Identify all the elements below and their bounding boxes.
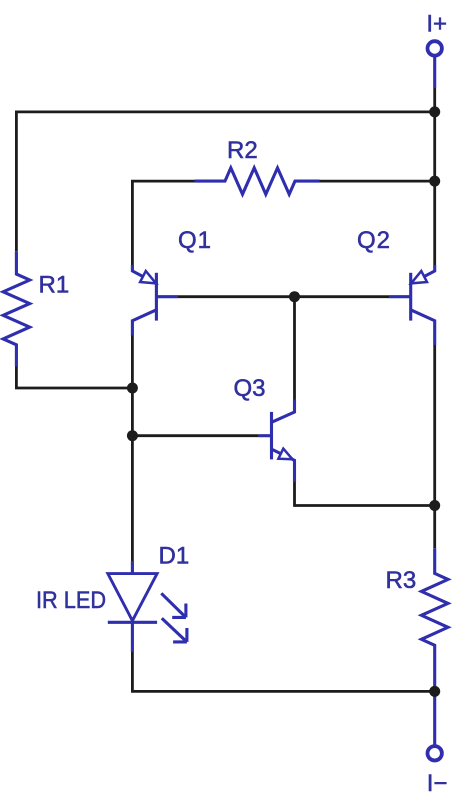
svg-text:R3: R3: [386, 567, 417, 594]
terminal I-: [428, 746, 442, 760]
node junction top-right: [429, 106, 440, 117]
wire left rail upper: [15, 111, 18, 252]
node junction bases: [289, 291, 300, 302]
svg-text:R2: R2: [227, 137, 258, 164]
svg-text:D1: D1: [159, 543, 190, 570]
node junction R2-right: [429, 176, 440, 187]
node junction R1-bottom: [127, 383, 138, 394]
svg-text:R1: R1: [39, 272, 70, 299]
transistor Q2: [389, 265, 435, 345]
resistor R3: [421, 548, 448, 746]
svg-text:Q3: Q3: [234, 375, 266, 402]
wire right rail middle: [433, 345, 436, 548]
wire Q3 emitter to right rail: [295, 482, 435, 506]
transistor Q1: [132, 265, 178, 336]
wire top horizontal: [16, 111, 434, 114]
svg-text:I+: I+: [426, 11, 447, 38]
D1 light arrow 1: [161, 593, 186, 617]
wire center vertical to Q3: [293, 297, 296, 400]
svg-text:Q1: Q1: [178, 227, 212, 254]
wire LED bottom: [132, 652, 434, 691]
wire R2 right: [320, 180, 435, 183]
D1 light arrow 2: [162, 618, 187, 642]
svg-text:IR LED: IR LED: [36, 587, 106, 614]
node junction bottom-right: [429, 686, 440, 697]
resistor R2: [195, 168, 320, 194]
wire Q3 base: [132, 434, 258, 437]
resistor R1: [3, 251, 30, 366]
transistor Q3: [259, 400, 295, 483]
wire base bus: [178, 295, 389, 298]
wire Q1 collector down: [131, 336, 134, 562]
svg-text:I−: I−: [427, 770, 448, 797]
node junction Q3-emitter-rail: [429, 500, 440, 511]
wire R2 left stem: [132, 181, 194, 265]
terminal I+: [428, 41, 442, 88]
node junction Q3-base: [127, 430, 138, 441]
wire right rail top: [433, 88, 436, 265]
svg-text:Q2: Q2: [357, 227, 391, 254]
diode D1 IR LED: [108, 561, 157, 652]
wire left rail lower and R1 bottom: [16, 367, 132, 389]
